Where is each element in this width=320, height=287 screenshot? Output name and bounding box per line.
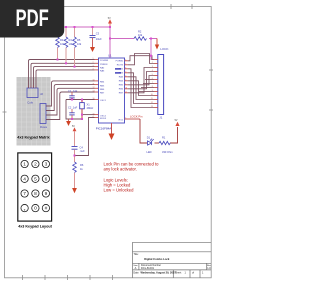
svg-text:3: 3 [93,65,94,67]
capacitor C4 [72,146,86,163]
svg-text:#: # [45,206,48,212]
svg-text:4x3 Keypad Matrix: 4x3 Keypad Matrix [17,136,50,140]
pull-up resistor R3 [56,27,65,60]
svg-text:9: 9 [45,191,48,197]
ground MCLR chain [72,188,77,193]
svg-text:LOCK: LOCK [160,47,168,51]
svg-text:Cols: Cols [27,101,33,105]
pull-up resistor R4 [64,27,73,63]
keypad columns box J2 [27,88,38,98]
svg-text:R4: R4 [69,38,73,42]
notes red text [104,161,160,192]
svg-text:12: 12 [93,87,95,89]
svg-text:Digital Combo Lock: Digital Combo Lock [144,257,170,261]
svg-text:4x3 Keypad Layout: 4x3 Keypad Layout [18,225,52,229]
svg-text:J1: J1 [159,116,162,120]
svg-text:RC0: RC0 [119,120,124,122]
capacitor C2 [68,106,78,120]
svg-text:J2: J2 [40,92,43,96]
resistor R6 [73,162,84,188]
svg-text:X1: X1 [87,103,91,107]
svg-text:C1 .1uF: C1 .1uF [68,89,78,93]
pin number marks IC left [93,58,95,118]
MCLR wire [75,118,99,156]
svg-text:10uF: 10uF [96,37,102,41]
svg-text:RA4: RA4 [119,76,124,79]
svg-text:RB7: RB7 [119,93,124,95]
svg-text:any lock activator.: any lock activator. [104,167,137,172]
VCC power arrow top [108,18,112,27]
svg-text:Low = Unlocked: Low = Unlocked [104,187,135,192]
svg-text:RB4: RB4 [119,81,124,83]
grey keypad matrix region [17,77,51,146]
resistor R1 [159,135,173,154]
IC pin overbars [115,68,121,73]
svg-text:RB6: RB6 [119,89,124,91]
svg-text:RLITB: RLITB [117,65,124,67]
svg-text:PIC16F84A: PIC16F84A [96,127,112,131]
wire lock to connector pin1 [151,39,154,60]
LED D1 [148,139,154,146]
svg-text:RA2: RA2 [100,66,105,69]
svg-text:R2: R2 [138,30,142,34]
PDF badge [0,0,64,38]
svg-text:MCLR: MCLR [100,118,107,120]
crystal circuit: wire OSC1 [66,100,95,120]
keypad rows connector [40,104,46,124]
svg-text:2: 2 [34,162,37,168]
svg-text:8: 8 [34,191,37,197]
svg-text:1: 1 [93,58,94,60]
svg-text:DCL-B-001: DCL-B-001 [141,266,155,270]
svg-text:330 Ohm: 330 Ohm [162,150,173,154]
svg-text:5V: 5V [108,18,111,20]
svg-text:of: of [192,272,194,275]
column net wires [29,60,95,89]
svg-text:7: 7 [23,191,26,197]
svg-text:RB6: RB6 [100,89,105,91]
ground under C3 [90,47,95,52]
IC left pin stubs [95,60,99,93]
svg-text:2: 2 [30,86,31,88]
svg-text:U1: U1 [108,54,112,58]
pin number marks J1 connector [151,58,153,108]
svg-text:C4: C4 [80,146,84,150]
IC pin names [100,60,124,121]
svg-text:RA3: RA3 [100,70,105,73]
svg-text:4: 4 [23,176,26,182]
svg-text:Sheet: Sheet [175,272,182,275]
svg-text:Lock Pin can be connected to: Lock Pin can be connected to [104,161,160,166]
svg-text:1: 1 [202,272,204,275]
svg-text:OSC1: OSC1 [100,100,107,102]
IC U1 [96,54,125,131]
svg-text:C3: C3 [96,32,100,36]
svg-text:4MHz: 4MHz [87,106,94,110]
row net wires [46,81,95,120]
svg-text:LOCK Pin: LOCK Pin [130,114,143,118]
svg-text:.1uF: .1uF [80,149,86,153]
svg-text:A: A [135,266,137,270]
svg-text:R3: R3 [60,38,64,42]
svg-text:10k: 10k [77,42,82,46]
bundle filler wires [139,80,154,92]
svg-text:2: 2 [93,62,94,64]
LOCK net wire to LED [125,114,178,143]
crystal X1 [80,100,94,120]
svg-text:13: 13 [93,91,95,93]
pin number marks J2 box [28,86,34,88]
junction dots [57,26,153,157]
VCC arrow LED [175,120,180,126]
svg-text:POWER: POWER [100,60,109,62]
sheet frame [3,4,214,280]
svg-text:OSC2: OSC2 [100,115,107,117]
svg-text:RB5: RB5 [100,85,105,87]
svg-text:RB7: RB7 [100,93,105,95]
svg-text:10: 10 [93,80,95,82]
svg-text:3: 3 [45,162,48,168]
right wire bundle [128,54,154,108]
svg-text:R5: R5 [77,38,81,42]
svg-text:LED: LED [147,150,152,154]
ground crystal [66,119,71,126]
svg-text:1: 1 [185,272,187,275]
resistor R2 [134,30,147,41]
svg-text:1k: 1k [80,167,83,171]
svg-text:5: 5 [34,176,37,182]
svg-text:5V: 5V [72,126,75,128]
svg-text:5V: 5V [175,120,178,122]
svg-text:11: 11 [93,83,95,85]
VCC arrow MCLR chain [72,126,76,147]
svg-text:R6: R6 [80,163,84,167]
pin number marks IC right [125,59,127,119]
svg-text:10k: 10k [138,33,143,37]
svg-text:*: * [24,208,26,214]
capacitor C1 [68,89,78,100]
svg-text:RB4: RB4 [100,82,105,84]
svg-text:4: 4 [93,69,94,71]
svg-text:1: 1 [23,162,26,168]
svg-text:3: 3 [33,86,34,88]
svg-text:6: 6 [45,176,48,182]
ground under IC [109,123,115,140]
keypad layout drawing [18,153,53,229]
svg-text:R1: R1 [162,135,166,139]
svg-text:Date:: Date: [133,272,139,275]
svg-text:C2 .1uF: C2 .1uF [68,106,78,110]
svg-text:PORB0: PORB0 [116,61,124,63]
capacitor C3 [90,27,103,47]
svg-text:Wednesday, August 29, 2007: Wednesday, August 29, 2007 [141,271,177,275]
svg-text:0: 0 [34,206,37,212]
LOCK port arrow [155,39,169,52]
svg-text:Rows: Rows [40,125,48,129]
svg-text:Title:: Title: [134,253,139,256]
svg-text:RB5: RB5 [119,85,124,87]
connector J1 [158,55,164,120]
IC right pin stubs [125,61,129,93]
VCC bus wire [58,27,158,58]
svg-text:PWRIN: PWRIN [100,64,108,66]
svg-text:D1: D1 [147,135,151,139]
svg-text:PDF: PDF [16,5,49,32]
pull-up resistor R5 [73,27,82,67]
J1 pin stubs [154,60,158,108]
title block [133,242,212,277]
svg-text:1: 1 [28,86,29,88]
